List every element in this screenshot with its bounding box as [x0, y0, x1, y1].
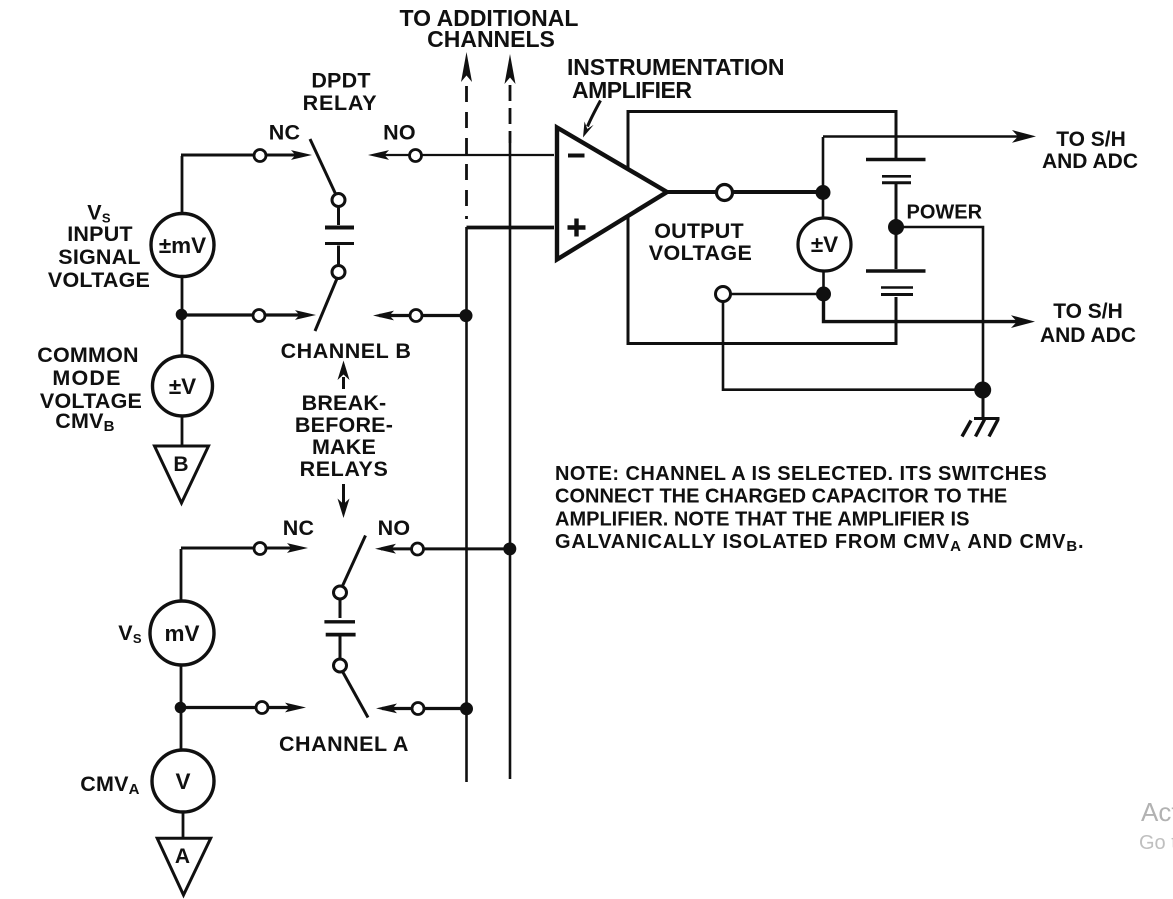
svg-text:AND ADC: AND ADC — [1042, 150, 1138, 173]
svg-text:OUTPUT: OUTPUT — [654, 219, 744, 243]
svg-text:AMPLIFIER. NOTE THAT THE AMPLI: AMPLIFIER. NOTE THAT THE AMPLIFIER IS — [555, 508, 969, 530]
svg-text:TO S/H: TO S/H — [1056, 128, 1126, 151]
svg-text:AMPLIFIER: AMPLIFIER — [572, 77, 692, 103]
svg-text:V: V — [175, 769, 190, 794]
svg-text:NO: NO — [378, 516, 411, 540]
svg-text:INPUT: INPUT — [67, 222, 133, 246]
svg-text:BEFORE-: BEFORE- — [295, 413, 393, 437]
svg-text:±V: ±V — [811, 232, 838, 257]
svg-text:±mV: ±mV — [159, 233, 206, 258]
svg-text:MAKE: MAKE — [312, 435, 376, 459]
svg-text:VOLTAGE: VOLTAGE — [48, 268, 150, 292]
svg-text:NC: NC — [283, 516, 314, 540]
svg-text:±V: ±V — [169, 374, 196, 399]
svg-text:GALVANICALLY ISOLATED FROM CMV: GALVANICALLY ISOLATED FROM CMVA AND CMVB… — [555, 531, 1084, 555]
svg-text:MODE: MODE — [52, 366, 121, 390]
svg-text:NC: NC — [269, 121, 300, 145]
svg-text:CHANNELS: CHANNELS — [427, 26, 555, 52]
svg-text:BREAK-: BREAK- — [302, 391, 387, 415]
svg-text:AND ADC: AND ADC — [1040, 324, 1136, 347]
svg-text:NO: NO — [383, 121, 416, 145]
svg-text:NOTE: CHANNEL A IS SELECTED. I: NOTE: CHANNEL A IS SELECTED. ITS SWITCHE… — [555, 463, 1047, 485]
svg-text:RELAY: RELAY — [303, 91, 378, 115]
svg-text:A: A — [175, 845, 190, 868]
svg-text:DPDT: DPDT — [311, 69, 370, 93]
svg-text:CHANNEL B: CHANNEL B — [281, 339, 412, 363]
svg-text:Go to: Go to — [1139, 832, 1173, 854]
svg-text:SIGNAL: SIGNAL — [58, 245, 140, 269]
svg-text:TO S/H: TO S/H — [1053, 300, 1123, 323]
svg-text:mV: mV — [164, 621, 199, 646]
svg-text:B: B — [173, 453, 188, 476]
svg-text:CONNECT THE CHARGED CAPACITOR: CONNECT THE CHARGED CAPACITOR TO THE — [555, 486, 1007, 508]
svg-text:COMMON: COMMON — [37, 343, 139, 367]
svg-text:POWER: POWER — [907, 202, 983, 224]
svg-text:RELAYS: RELAYS — [300, 457, 389, 481]
svg-text:CHANNEL A: CHANNEL A — [279, 732, 409, 756]
svg-text:Activ: Activ — [1141, 797, 1173, 827]
svg-text:VOLTAGE: VOLTAGE — [649, 241, 753, 265]
